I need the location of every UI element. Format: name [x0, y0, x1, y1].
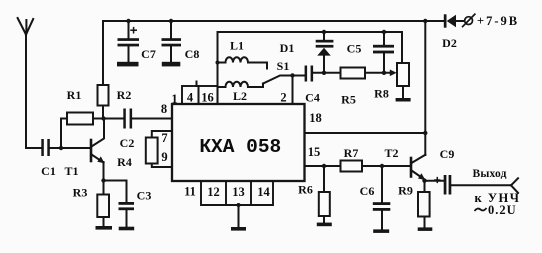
svg-text:D2: D2 — [442, 36, 457, 50]
svg-text:11: 11 — [184, 185, 196, 199]
svg-text:15: 15 — [308, 145, 321, 159]
svg-text:C8: C8 — [185, 47, 200, 61]
svg-text:T2: T2 — [384, 146, 398, 160]
svg-text:R9: R9 — [398, 184, 413, 198]
svg-text:L1: L1 — [230, 39, 244, 53]
svg-text:C7: C7 — [141, 47, 156, 61]
svg-text:R6: R6 — [298, 183, 313, 197]
svg-text:16: 16 — [201, 91, 214, 105]
svg-text:1: 1 — [171, 92, 177, 106]
svg-text:7: 7 — [161, 131, 167, 145]
svg-text:C3: C3 — [137, 189, 152, 203]
svg-text:R4: R4 — [117, 155, 132, 169]
svg-text:Выход: Выход — [473, 168, 507, 180]
svg-text:0.2U: 0.2U — [488, 203, 517, 217]
svg-text:R7: R7 — [344, 146, 359, 160]
svg-text:R8: R8 — [374, 87, 389, 101]
svg-text:R1: R1 — [67, 88, 82, 102]
svg-text:18: 18 — [309, 111, 322, 125]
svg-text:C1: C1 — [41, 164, 56, 178]
svg-text:13: 13 — [232, 185, 245, 199]
svg-text:C4: C4 — [305, 91, 320, 105]
svg-text:D1: D1 — [280, 41, 295, 55]
svg-text:4: 4 — [187, 91, 194, 105]
svg-text:R2: R2 — [117, 88, 132, 102]
svg-text:T1: T1 — [64, 164, 78, 178]
svg-text:R3: R3 — [73, 186, 88, 200]
svg-text:12: 12 — [207, 185, 220, 199]
svg-text:+7-9В: +7-9В — [477, 14, 519, 28]
svg-text:S1: S1 — [277, 59, 290, 73]
svg-text:C6: C6 — [360, 184, 375, 198]
svg-text:КХА 058: КХА 058 — [199, 136, 281, 158]
svg-text:14: 14 — [257, 185, 270, 199]
svg-text:8: 8 — [161, 102, 167, 116]
svg-text:2: 2 — [280, 91, 286, 105]
svg-text:C5: C5 — [347, 42, 362, 56]
svg-text:9: 9 — [161, 150, 167, 164]
svg-text:R5: R5 — [341, 93, 356, 107]
svg-text:C2: C2 — [120, 136, 135, 150]
svg-text:L2: L2 — [233, 89, 247, 103]
svg-text:C9: C9 — [440, 147, 455, 161]
